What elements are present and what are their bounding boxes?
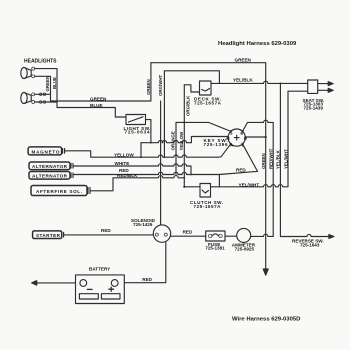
wire: key S: [184, 122, 231, 131]
svg-text:MAGNETO: MAGNETO: [32, 149, 60, 154]
wire: lower bulb top terminal to green riser: [35, 93, 51, 95]
svg-text:BATTERY: BATTERY: [89, 267, 110, 272]
wire green branch down to solenoid: [160, 101, 162, 225]
wire yel/blk to seat switch: [211, 81, 308, 83]
wire green: upper bulb lower terminal riser: [35, 76, 51, 101]
svg-text:725-1657A: 725-1657A: [194, 101, 222, 106]
wire red: solenoid bottom to battery: [124, 242, 166, 283]
wire: lower bulb bottom terminal to blue riser: [35, 101, 57, 103]
wire green top bus: [151, 63, 266, 269]
wire: key B to red/wht: [243, 120, 274, 236]
svg-text:S: S: [230, 131, 233, 136]
wire red/blk: [90, 176, 184, 191]
svg-text:725-1426: 725-1426: [133, 222, 153, 227]
svg-text:GREEN: GREEN: [261, 153, 266, 169]
battery plus sign: [108, 287, 114, 292]
svg-text:RED/WHT: RED/WHT: [268, 148, 273, 169]
svg-text:BLUE: BLUE: [52, 77, 57, 89]
wire: battery negative to chassis: [36, 282, 76, 284]
svg-text:A: A: [230, 142, 233, 147]
svg-text:WHITE: WHITE: [115, 161, 130, 166]
fuse F1: [206, 231, 225, 241]
svg-text:YEL/WHT: YEL/WHT: [239, 182, 260, 187]
svg-text:YEL/BLK: YEL/BLK: [233, 77, 253, 82]
battery minus sign: [87, 288, 93, 290]
wire: key G to green: [245, 136, 265, 138]
wire white: [73, 164, 191, 175]
svg-text:GREEN: GREEN: [45, 76, 50, 92]
wire: key L red diagonal to clutch riser: [219, 144, 257, 175]
solenoid SOL1: [153, 225, 170, 242]
wire blue: upper bulb top terminal to light switch: [35, 69, 126, 117]
svg-text:ALTERNATOR: ALTERNATOR: [32, 173, 68, 178]
seat switch SS1: [308, 80, 334, 93]
wire: fuse to ammeter: [225, 235, 237, 237]
svg-text:GREEN: GREEN: [146, 79, 151, 95]
svg-text:ORG/WHT: ORG/WHT: [158, 74, 163, 96]
wire red: alternator to clutch riser: [73, 172, 219, 187]
svg-text:YELLOW: YELLOW: [114, 153, 134, 158]
svg-text:G: G: [244, 136, 247, 141]
svg-text:725-1643: 725-1643: [300, 242, 320, 247]
svg-text:ALTERNATOR: ALTERNATOR: [32, 164, 68, 169]
svg-text:GREEN: GREEN: [235, 58, 252, 63]
wire org/wht vertical and top elbow: [164, 71, 219, 157]
wire yel/blk vertical to reverse switch: [280, 83, 329, 236]
svg-text:YEL/BLK: YEL/BLK: [276, 149, 281, 169]
svg-text:RED/BLK: RED/BLK: [117, 173, 138, 178]
svg-text:YEL/WHT: YEL/WHT: [283, 149, 288, 169]
node: yellow bus rise to H1: [140, 143, 142, 158]
svg-text:Headlight Harness 629-0309: Headlight Harness 629-0309: [218, 41, 297, 47]
svg-text:ORANGE: ORANGE: [171, 131, 176, 150]
wire yel/wht row: [211, 91, 308, 187]
light switch LS1: [126, 115, 146, 125]
battery ground connector arrow: [32, 281, 37, 285]
wire: light switch right pin down to bus H1: [146, 120, 151, 143]
node: org/blk branch: [183, 122, 185, 124]
svg-text:725-0634: 725-0634: [125, 130, 150, 135]
reverse switch arrow: [329, 235, 334, 239]
headlight upper bulb: [21, 67, 35, 79]
svg-text:RED: RED: [101, 228, 111, 233]
starter connector: [33, 231, 64, 239]
svg-text:Wire Harness 629-0305D: Wire Harness 629-0305D: [232, 317, 300, 323]
svg-text:YELLOW: YELLOW: [179, 131, 184, 151]
headlight lower bulb: [21, 92, 35, 103]
key switch KS1: [227, 129, 246, 146]
svg-text:725-1396: 725-1396: [204, 142, 228, 147]
wire org/blk vertical: [183, 85, 185, 187]
ground arrow green: [263, 269, 268, 275]
afterfire solenoid connector: [31, 186, 90, 196]
alternator connector 1: [29, 162, 73, 170]
wire yellow: magneto to key switch A: [65, 144, 231, 157]
wire: deck switch left pins to org/blk: [184, 85, 199, 92]
svg-text:GREEN: GREEN: [90, 96, 107, 101]
svg-text:ORG/BLK: ORG/BLK: [186, 95, 191, 116]
svg-text:725-0925: 725-0925: [235, 246, 255, 251]
alternator connector 2: [29, 172, 73, 180]
svg-text:725-1381: 725-1381: [205, 246, 225, 251]
battery B1: [76, 275, 125, 304]
deck switch DS1: [200, 81, 212, 95]
wire red: starter to solenoid: [64, 234, 154, 236]
magneto connector: [28, 147, 65, 155]
wire orange: [175, 122, 177, 174]
wire green horizontal to riser at 150.9: [51, 63, 151, 101]
ammeter AM1: [237, 228, 251, 242]
wire: clutch left pin to org/blk: [184, 186, 200, 188]
node: org/wht joins yellow bus: [164, 156, 166, 158]
svg-text:HEADLIGHTS: HEADLIGHTS: [24, 59, 57, 65]
svg-text:AFTERFIRE SOL.: AFTERFIRE SOL.: [36, 189, 82, 194]
svg-text:BLUE: BLUE: [90, 103, 103, 108]
svg-text:725-1439: 725-1439: [304, 105, 324, 110]
svg-text:STARTER: STARTER: [36, 233, 61, 238]
wire red: solenoid to fuse: [171, 235, 206, 237]
svg-text:RED: RED: [142, 277, 152, 282]
svg-text:725-1657A: 725-1657A: [194, 204, 222, 209]
wire bus H1 to key switch M: [141, 137, 228, 143]
svg-text:RED: RED: [183, 230, 193, 235]
svg-text:RED: RED: [236, 168, 246, 173]
wire: ammeter to red/wht: [251, 234, 274, 236]
clutch switch CS1: [200, 184, 211, 198]
